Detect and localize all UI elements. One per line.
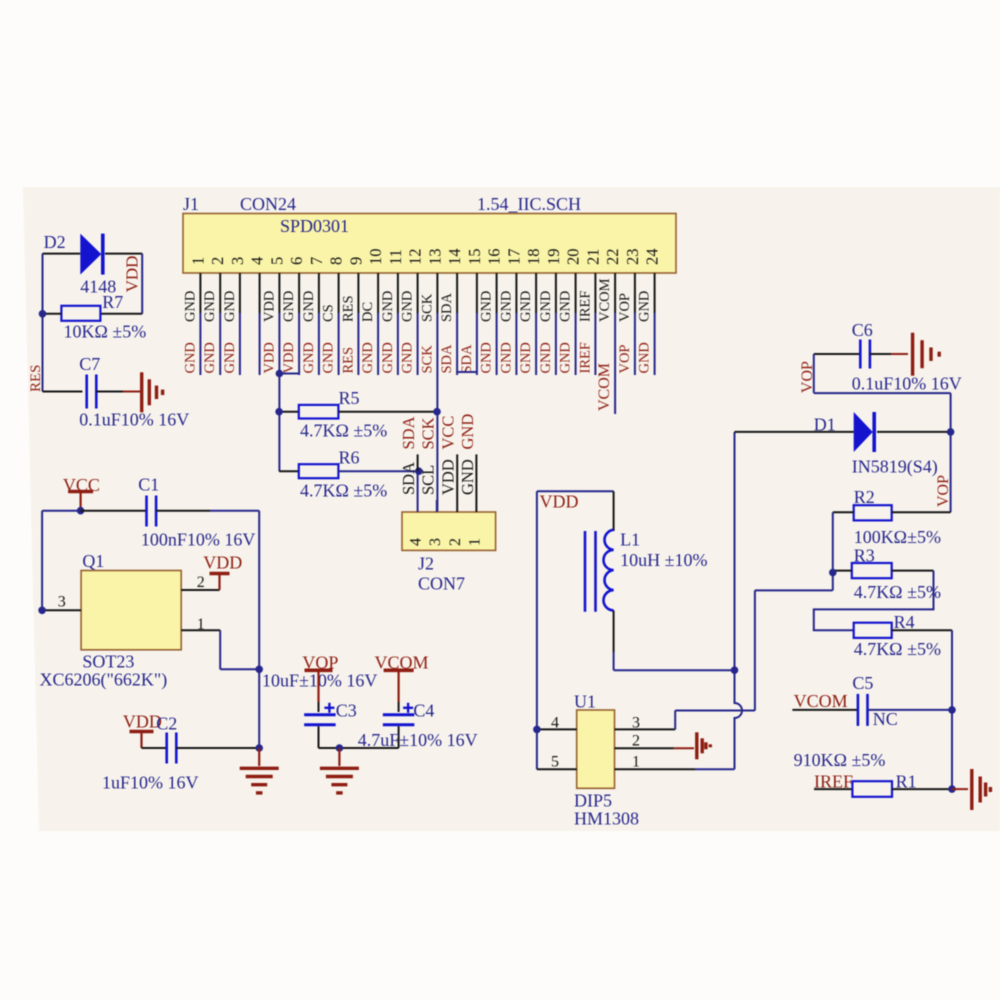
wire VCC node left (42, 510, 81, 512)
svg-text:VDD: VDD (261, 291, 277, 322)
connector J2 body (402, 512, 496, 550)
wire C5 right to rail (868, 709, 953, 711)
junction J1 pin5/pin6 VDD (276, 370, 284, 378)
svg-text:GND: GND (518, 342, 534, 373)
wire J1 pin 16 (blue segment) (496, 313, 498, 375)
svg-text:J2: J2 (418, 554, 434, 574)
wire J1 pin 6 (blue segment) (298, 313, 300, 375)
svg-text:1: 1 (188, 257, 207, 265)
ground (R1) (970, 769, 973, 810)
svg-text:18: 18 (524, 249, 543, 266)
wire VDD output rail vertical (258, 511, 260, 748)
wire C6 right (870, 353, 891, 355)
wire J1 pin 12 (blue segment) (417, 313, 419, 375)
wire C7 to ground (red) (123, 391, 140, 393)
wire VCOM to C5 left (792, 709, 858, 711)
wire J1 pin 9 (black segment) (357, 273, 359, 313)
svg-text:2: 2 (208, 257, 227, 265)
wire VOP rail down to R2 (950, 432, 952, 512)
wire J1 pin 4 (black segment) (259, 273, 261, 313)
wire down to D1 junction (950, 393, 952, 432)
svg-text:GND: GND (182, 291, 198, 322)
svg-text:3: 3 (427, 538, 444, 546)
wire R7 left (43, 313, 62, 315)
junction SCK line / R5 (433, 408, 441, 416)
wire J1 pin 7 (blue segment) (318, 313, 320, 375)
wire J1 pin 3 (blue segment) (239, 313, 241, 375)
resistor R6 (299, 464, 339, 478)
svg-text:SOT23: SOT23 (82, 652, 134, 672)
svg-text:SCK: SCK (418, 417, 437, 449)
wire C1 right (black) (156, 510, 210, 512)
wire J1 pin 20 (black segment) (575, 273, 577, 313)
capacitor C3 (polarized) (304, 713, 336, 716)
svg-text:13: 13 (425, 249, 444, 266)
wire J1 pin15 SDA jog to pin14 (457, 371, 477, 373)
svg-text:C3: C3 (336, 701, 357, 721)
capacitor C1 (145, 496, 148, 527)
wire R4 right (892, 629, 952, 631)
junction U1 pin4 / VDD rail (533, 726, 541, 734)
resistor R5 (299, 405, 339, 419)
wire L1 to D1 rail (614, 669, 735, 671)
wire R2 right (892, 511, 951, 513)
svg-text:IREF: IREF (577, 291, 593, 322)
svg-text:L1: L1 (620, 530, 640, 550)
junction VDD line / R5 (275, 408, 283, 416)
svg-text:GND: GND (637, 291, 653, 322)
wire C4 bottom down (398, 726, 400, 748)
svg-text:CON24: CON24 (240, 194, 296, 214)
wire anode D2 (43, 253, 81, 255)
wire J1 pin 15 (black segment) (476, 273, 478, 313)
wire VDD down to L1 top (613, 491, 615, 531)
svg-text:1uF10% 16V: 1uF10% 16V (102, 773, 199, 793)
ground (U1 pin 2) (695, 732, 698, 759)
wire J1 pin 24 (blue segment) (654, 313, 656, 375)
svg-text:SDA: SDA (459, 344, 475, 374)
svg-text:GND: GND (321, 342, 337, 373)
svg-text:GND: GND (222, 291, 238, 322)
junction L1 / D1 rail (731, 666, 739, 674)
wire J1 pin 17 (blue segment) (515, 313, 517, 375)
svg-text:D2: D2 (44, 232, 66, 252)
svg-text:Q1: Q1 (82, 551, 104, 571)
svg-text:1.54_IIC.SCH: 1.54_IIC.SCH (477, 194, 581, 214)
svg-text:GND: GND (637, 342, 653, 373)
svg-text:4.7KΩ ±5%: 4.7KΩ ±5% (300, 481, 387, 501)
wire up to R3 junction (832, 573, 834, 591)
wire VOP to C3 top (318, 702, 320, 712)
svg-text:VOP: VOP (935, 475, 952, 507)
capacitor C6 (859, 340, 862, 369)
ground (C3/C4) (320, 767, 359, 770)
svg-text:GND: GND (400, 342, 416, 373)
wire U1 pin 3 (black) (615, 728, 676, 730)
power symbol VCOM bar (C4) (384, 668, 414, 672)
svg-text:DC: DC (360, 302, 376, 322)
connector J1 body (183, 214, 676, 274)
svg-text:2: 2 (447, 538, 464, 546)
wire right rail R4-C5-R1 (951, 630, 953, 789)
resistor R1 (852, 781, 892, 797)
wire J1 pin 2 (blue segment) (219, 313, 221, 375)
svg-text:IN5819(S4): IN5819(S4) (852, 457, 938, 478)
svg-text:VCOM: VCOM (596, 363, 613, 411)
wire U1 pin 4 (537, 728, 577, 730)
svg-text:GND: GND (538, 291, 554, 322)
svg-text:23: 23 (623, 249, 642, 266)
wire R1 to ground (red) (952, 788, 968, 790)
wire D2 cathode down to R7 right (141, 254, 143, 314)
wire J1 pin 8 (black segment) (338, 273, 340, 313)
wire U1 pin3 to R3 left (755, 589, 833, 591)
wire J1 pin 9 (blue segment) (357, 313, 359, 375)
junction C5 / rail (948, 706, 956, 714)
svg-text:C1: C1 (138, 475, 159, 495)
capacitor C2 (165, 733, 168, 764)
junction C3/C4 ground (336, 744, 344, 752)
wire R1 right (892, 788, 952, 790)
wire J1 pin 22 VCOM stub (614, 313, 616, 414)
wire Q1 pin 3 (42, 609, 81, 611)
inductor L1 core bars (584, 531, 587, 612)
ground (below Q1 rail) (240, 767, 279, 770)
wire R6 left (279, 470, 299, 472)
svg-text:VDD: VDD (540, 492, 579, 512)
svg-text:RES: RES (340, 347, 356, 374)
wire D1 rail vertical with hop over pin3 wire (735, 432, 743, 769)
svg-text:CON7: CON7 (418, 574, 465, 594)
svg-text:GND: GND (301, 291, 317, 322)
junction VCC (77, 507, 85, 515)
svg-text:2: 2 (632, 733, 640, 750)
svg-text:4.7KΩ ±5%: 4.7KΩ ±5% (854, 582, 941, 602)
svg-text:3: 3 (228, 257, 247, 265)
wire J1 pin 2 (black segment) (219, 273, 221, 313)
svg-text:R7: R7 (102, 292, 123, 312)
svg-text:SDA: SDA (399, 416, 418, 449)
wire R3 right zigzag to R4 left (814, 571, 934, 631)
svg-text:1: 1 (466, 538, 483, 546)
junction Q1 pin1 / rail (255, 666, 263, 674)
svg-text:SCL: SCL (418, 465, 437, 495)
wire Q1 pin 2 (181, 589, 219, 591)
svg-text:6: 6 (287, 257, 306, 265)
wire U1 pin3 up (674, 711, 676, 730)
svg-text:GND: GND (479, 342, 495, 373)
wire J1 pin 23 (blue segment) (634, 313, 636, 375)
svg-text:100KΩ±5%: 100KΩ±5% (854, 527, 941, 547)
wire VCOM to C4 top (398, 702, 400, 712)
wire J1 pin 7 (black segment) (318, 273, 320, 313)
wire J2 pin 3 (SCL line continues) (436, 500, 438, 512)
wire J1 pin 19 (black segment) (555, 273, 557, 313)
wire D1 anode (735, 431, 854, 433)
wire J1 pin 14 (black segment) (456, 273, 458, 313)
svg-text:8: 8 (327, 257, 346, 265)
svg-text:VDD: VDD (439, 459, 458, 495)
svg-text:U1: U1 (574, 692, 596, 712)
svg-text:R6: R6 (339, 448, 360, 468)
svg-text:17: 17 (504, 249, 523, 266)
svg-text:16: 16 (485, 249, 504, 265)
wire IREF to R1 left (814, 788, 852, 790)
svg-text:J1: J1 (183, 194, 199, 214)
svg-text:VOP: VOP (617, 293, 633, 322)
svg-text:CS: CS (321, 304, 337, 322)
svg-text:4: 4 (408, 538, 425, 546)
wire J1 pin 8 (blue segment) (338, 313, 340, 375)
wire J1 pin 18 (blue segment) (535, 313, 537, 375)
wire C3-C4 bottom bus (319, 747, 399, 749)
svg-text:20: 20 (564, 249, 583, 266)
svg-text:GND: GND (558, 342, 574, 373)
svg-text:10: 10 (366, 249, 385, 266)
ground (C7) (140, 372, 143, 412)
capacitor C4 (polarized) (383, 713, 415, 716)
IC U1 body (577, 710, 615, 788)
wire J1 pin 1 (blue segment) (199, 313, 201, 375)
svg-text:C5: C5 (852, 673, 873, 693)
svg-text:C4: C4 (413, 701, 434, 721)
svg-text:VCOM: VCOM (794, 691, 848, 711)
junction Q1 pin3 / VCC rail (38, 607, 46, 615)
svg-text:22: 22 (603, 249, 622, 266)
wire VCC rail left vertical (41, 511, 43, 611)
wire J1 pin 18 (black segment) (535, 273, 537, 313)
svg-text:0.1uF10% 16V: 0.1uF10% 16V (79, 410, 189, 430)
wire J1 pin 12 (black segment) (417, 273, 419, 313)
svg-text:VCC: VCC (439, 416, 458, 450)
wire R7 right (100, 313, 142, 315)
svg-text:SDA: SDA (439, 344, 455, 374)
power symbol VOP bar (C3) (305, 668, 333, 672)
wire R2 left (833, 511, 854, 513)
wire U1 pin 1 (black) (615, 768, 696, 770)
svg-text:C6: C6 (852, 320, 873, 340)
svg-text:3: 3 (58, 594, 66, 611)
wire L1 bottom (black) (613, 610, 615, 652)
junction R7 left / RES net (39, 310, 47, 318)
wire C1 right to rail (210, 510, 259, 512)
svg-text:SPD0301: SPD0301 (280, 216, 349, 236)
svg-text:5: 5 (267, 257, 286, 265)
svg-text:GND: GND (458, 414, 477, 450)
wire J2 pin 2 stub (456, 454, 458, 512)
svg-text:GND: GND (380, 291, 396, 322)
svg-text:RES: RES (28, 364, 44, 392)
wire VDD top horizontal (537, 490, 614, 492)
svg-text:4.7uF±10% 16V: 4.7uF±10% 16V (358, 730, 478, 750)
svg-text:100nF10% 16V: 100nF10% 16V (141, 530, 256, 550)
svg-text:GND: GND (202, 342, 218, 373)
wire U1 pin3 vertical up (754, 590, 756, 710)
svg-text:21: 21 (583, 249, 602, 266)
svg-text:24: 24 (643, 249, 662, 266)
wire VOP horizontal to rail (814, 392, 951, 394)
svg-text:GND: GND (458, 459, 477, 495)
wire VOP corner vertical (813, 354, 815, 393)
resistor R7 (61, 306, 100, 321)
svg-text:VDD: VDD (203, 553, 242, 573)
svg-text:GND: GND (182, 342, 198, 373)
resistor R3 (852, 563, 892, 578)
inductor L1 winding (603, 530, 613, 611)
wire J1 pin 1 (black segment) (199, 273, 201, 313)
wire C2 right to rail (176, 747, 259, 749)
wire J1 pin 16 (black segment) (496, 273, 498, 313)
svg-text:GND: GND (518, 291, 534, 322)
wire U1 pin2 to ground (red) (674, 747, 694, 749)
wire J1 pin 14 (blue segment) (456, 313, 458, 375)
wire J1 pin 5 (black segment) (278, 273, 280, 313)
capacitor C5 (857, 694, 860, 726)
junction R1 / rail / ground (948, 785, 956, 793)
wire J1 pin 10 (blue segment) (377, 313, 379, 375)
wire VCC to C1 left (81, 510, 147, 512)
wire J1 pin 11 (black segment) (397, 273, 399, 313)
wire J1 pin 4 (blue segment) (259, 313, 261, 375)
wire RES net vertical (42, 254, 44, 392)
wire U1 pin3 right (under hop) (675, 710, 755, 712)
diode D1 (854, 412, 873, 452)
svg-text:GND: GND (400, 291, 416, 322)
svg-text:9: 9 (346, 257, 365, 265)
wire VDD left vertical to U1 (536, 491, 538, 769)
svg-text:19: 19 (544, 249, 563, 266)
svg-text:5: 5 (551, 754, 559, 771)
regulator Q1 body (81, 571, 181, 650)
wire Q1 pin1 to VDD rail (220, 668, 259, 670)
wire C6 to ground (red) (891, 353, 908, 355)
wire J1 pin 6 (black segment) (298, 273, 300, 313)
svg-text:SCK: SCK (419, 293, 435, 322)
wire D1 cathode (877, 431, 951, 433)
svg-text:GND: GND (498, 342, 514, 373)
wire R3 left (833, 570, 852, 572)
diode D2 (80, 234, 101, 275)
svg-text:GND: GND (538, 342, 554, 373)
svg-text:14: 14 (445, 249, 464, 266)
power symbol VDD bar (C2) (130, 730, 154, 734)
wire J1 pin 24 (black segment) (654, 273, 656, 313)
svg-text:GND: GND (380, 342, 396, 373)
svg-text:SDA: SDA (399, 462, 418, 495)
wire J1 pin 19 (blue segment) (555, 313, 557, 375)
ground stub (main rail) (258, 748, 260, 766)
svg-text:910KΩ ±5%: 910KΩ ±5% (794, 750, 886, 770)
svg-text:SDA: SDA (439, 292, 455, 322)
svg-text:15: 15 (465, 249, 484, 266)
wire J1 pin 20 (blue segment) (575, 313, 577, 375)
svg-text:VOP: VOP (617, 344, 633, 373)
ground stub (C3/C4) (338, 748, 340, 766)
wire R3 right (892, 570, 934, 572)
wire L1 bottom (navy) (613, 652, 615, 670)
wire J2 pin 4 to R6 junction (417, 471, 419, 512)
svg-text:C2: C2 (156, 714, 177, 734)
svg-text:VDD: VDD (123, 256, 142, 293)
wire U1 pin 1 (navy) (695, 768, 735, 770)
wire J1 pin 11 (blue segment) (397, 313, 399, 375)
wire R5 left (279, 411, 299, 413)
junction R2/R3 left (829, 569, 837, 577)
wire C3 bottom down (318, 726, 320, 748)
svg-text:GND: GND (301, 342, 317, 373)
wire J1 pin 3 (black segment) (239, 273, 241, 313)
svg-text:2: 2 (197, 574, 205, 591)
svg-text:4: 4 (248, 257, 267, 265)
svg-text:GND: GND (479, 291, 495, 322)
wire J1 pin 13 SCK net down to J2 pin 3 (436, 313, 438, 512)
svg-text:IREF: IREF (577, 342, 593, 373)
svg-text:XC6206("662K"): XC6206("662K") (40, 670, 168, 691)
svg-text:10uF±10% 16V: 10uF±10% 16V (262, 671, 377, 691)
wire J1 pin 13 (black segment) (436, 273, 438, 313)
junction D1 / C6 / R2 (947, 428, 955, 436)
wire R5 right to SCK line (338, 411, 437, 413)
ground (C6) (911, 333, 914, 376)
svg-text:VDD: VDD (261, 342, 277, 373)
svg-text:1: 1 (632, 754, 640, 771)
wire J1 pin 10 (black segment) (377, 273, 379, 313)
wire J1 pin 5 VDD net down to R6 (278, 313, 280, 471)
resistor R2 (854, 505, 892, 520)
power symbol VDD bar (Q1 pin2) (210, 572, 230, 576)
svg-text:GND: GND (558, 291, 574, 322)
svg-text:VCOM: VCOM (597, 278, 613, 322)
svg-text:VDD: VDD (281, 342, 297, 373)
wire J1 pin 21 (blue segment) (594, 313, 596, 375)
wire J2 pin 4 stub (417, 454, 419, 471)
svg-text:R4: R4 (894, 612, 915, 632)
junction R6 / J2 pin4 line (415, 467, 423, 475)
wire J1 pin 21 (black segment) (594, 273, 596, 313)
wire cathode D2 (105, 253, 142, 255)
svg-text:GND: GND (498, 291, 514, 322)
svg-text:4.7KΩ ±5%: 4.7KΩ ±5% (854, 639, 941, 659)
svg-text:HM1308: HM1308 (574, 809, 639, 829)
wire J1 pin 17 (black segment) (515, 273, 517, 313)
svg-text:4.7KΩ ±5%: 4.7KΩ ±5% (300, 421, 387, 441)
wire J1 pin6 VDD jog to pin5 (279, 373, 299, 375)
svg-text:GND: GND (360, 342, 376, 373)
svg-text:DIP5: DIP5 (574, 791, 612, 811)
wire J1 pin 22 (black segment) (614, 273, 616, 313)
svg-text:GND: GND (202, 291, 218, 322)
svg-text:12: 12 (406, 249, 425, 266)
svg-text:7: 7 (307, 257, 326, 265)
svg-text:GND: GND (222, 342, 238, 373)
resistor R4 (854, 623, 892, 638)
wire C7 right plate out (96, 391, 123, 393)
svg-text:R2: R2 (854, 487, 875, 507)
capacitor C7 (85, 375, 88, 409)
wire U1 pin 2 (615, 747, 674, 749)
wire J1 pin 23 (black segment) (634, 273, 636, 313)
power symbol VCC bar (68, 490, 93, 494)
wire Q1 pin 1 (181, 629, 220, 631)
svg-text:SCK: SCK (419, 345, 435, 374)
svg-text:C7: C7 (79, 354, 100, 374)
svg-text:NC: NC (873, 709, 898, 729)
wire C6 left (814, 353, 861, 355)
svg-text:10KΩ ±5%: 10KΩ ±5% (64, 322, 147, 342)
svg-text:R5: R5 (339, 388, 360, 408)
svg-text:10uH ±10%: 10uH ±10% (620, 550, 707, 570)
wire J2 pin 1 stub (475, 454, 477, 512)
